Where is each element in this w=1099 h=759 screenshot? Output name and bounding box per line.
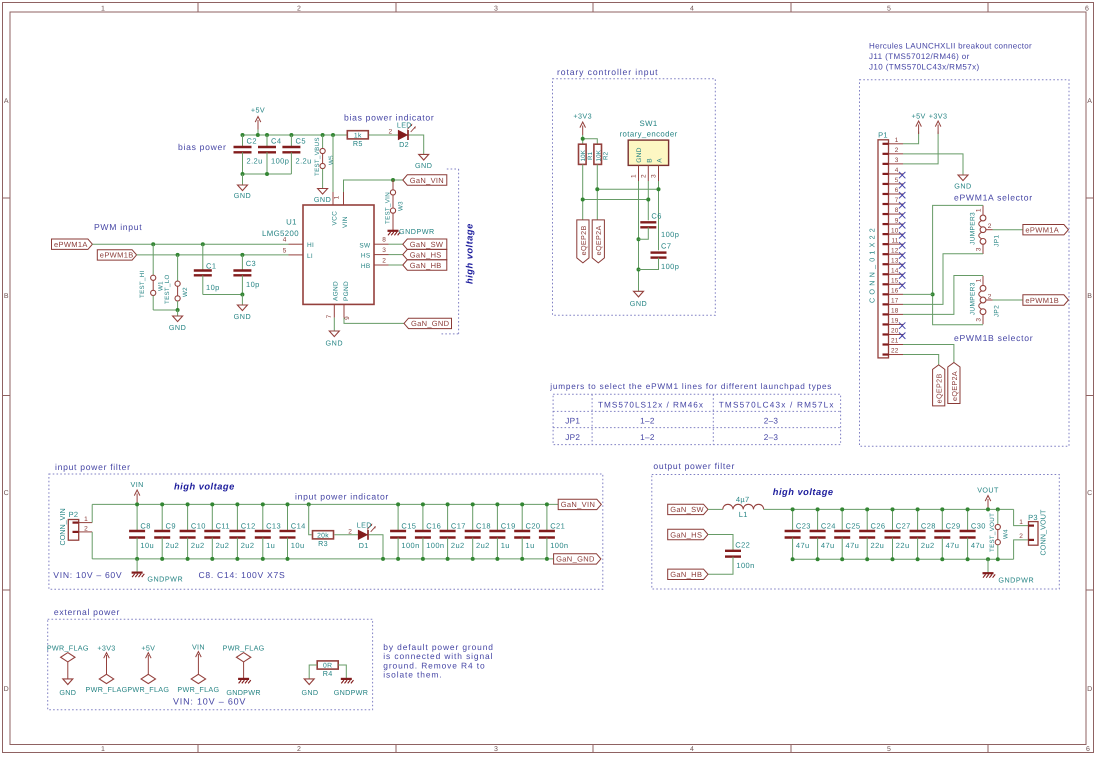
svg-text:4µ7: 4µ7 xyxy=(736,495,750,504)
capacitor C6 xyxy=(640,221,656,223)
junction C27 top xyxy=(891,507,895,511)
power VOUT xyxy=(987,499,989,509)
junction C15 top xyxy=(396,502,400,506)
capacitor C1 xyxy=(202,244,204,270)
SW1 pin 2 xyxy=(647,165,649,181)
wire pin2 to GND xyxy=(903,154,963,175)
svg-text:GaN_GND: GaN_GND xyxy=(411,319,450,328)
capacitor C22 xyxy=(725,550,741,552)
global label GaN_GND input xyxy=(554,554,601,564)
P1 pin 2 xyxy=(883,153,889,155)
svg-text:C1: C1 xyxy=(206,262,216,271)
svg-text:TEST_VIN: TEST_VIN xyxy=(384,192,391,224)
P1 pin 21 xyxy=(883,343,889,345)
U1 pin SW xyxy=(374,243,389,245)
svg-text:ePWM1B: ePWM1B xyxy=(1025,296,1059,305)
svg-text:PWR_FLAG: PWR_FLAG xyxy=(86,685,128,694)
capacitor C21 xyxy=(546,504,548,531)
junction W2 gnd xyxy=(176,308,180,312)
svg-text:4: 4 xyxy=(690,746,694,753)
capacitor C18 xyxy=(472,504,474,531)
svg-text:100n: 100n xyxy=(736,561,754,570)
no-connect pin 13 xyxy=(899,262,905,268)
capacitor C17 xyxy=(447,504,449,531)
global label ePWM1A xyxy=(52,239,93,249)
svg-text:C10: C10 xyxy=(191,522,206,531)
svg-text:PWR_FLAG: PWR_FLAG xyxy=(127,685,169,694)
svg-text:bias power indicator: bias power indicator xyxy=(344,113,434,123)
junction C8 bottom xyxy=(135,557,139,561)
svg-text:external power: external power xyxy=(54,607,120,617)
svg-text:100p: 100p xyxy=(661,262,679,271)
junction R1 xyxy=(581,198,585,202)
junction C13 bottom xyxy=(261,557,265,561)
junction C18 bottom xyxy=(471,557,475,561)
svg-text:GND: GND xyxy=(415,161,432,170)
svg-text:output power filter: output power filter xyxy=(653,461,735,471)
svg-text:C16: C16 xyxy=(426,522,441,531)
svg-text:C26: C26 xyxy=(871,522,886,531)
svg-text:+3V3: +3V3 xyxy=(573,112,592,121)
wire C1 C3 bottom xyxy=(203,294,243,296)
svg-text:JUMPER3: JUMPER3 xyxy=(970,282,977,315)
capacitor C3 xyxy=(241,255,243,271)
wire pin2 down xyxy=(647,181,649,220)
svg-text:+5V: +5V xyxy=(911,111,925,120)
svg-text:2u2: 2u2 xyxy=(451,541,465,550)
junction W3 xyxy=(391,178,395,182)
dashed box input filter xyxy=(49,474,603,589)
svg-text:GaN_HS: GaN_HS xyxy=(410,250,442,259)
capacitor C19 xyxy=(496,504,498,531)
svg-text:+5V: +5V xyxy=(251,106,265,115)
jumper JP2 xyxy=(980,285,986,291)
svg-text:C24: C24 xyxy=(821,522,836,531)
svg-text:W2: W2 xyxy=(182,287,189,297)
junction R3 branch xyxy=(307,502,311,506)
svg-text:GND: GND xyxy=(636,147,643,162)
junction C19 top xyxy=(495,502,499,506)
svg-text:D: D xyxy=(4,686,9,693)
svg-text:PWM input: PWM input xyxy=(94,222,142,232)
junction C17 top xyxy=(446,502,450,506)
svg-text:JP2: JP2 xyxy=(565,433,580,442)
svg-text:1: 1 xyxy=(976,208,983,212)
junction C15 bottom xyxy=(396,557,400,561)
svg-text:47u: 47u xyxy=(821,541,835,550)
svg-text:5: 5 xyxy=(887,6,891,13)
svg-text:100p: 100p xyxy=(661,230,679,239)
svg-text:2u2: 2u2 xyxy=(216,541,230,550)
svg-text:C25: C25 xyxy=(846,522,861,531)
svg-text:22u: 22u xyxy=(896,541,910,550)
svg-text:B: B xyxy=(4,293,9,300)
svg-text:VIN: VIN xyxy=(192,643,205,652)
svg-text:GaN_VIN: GaN_VIN xyxy=(561,500,596,509)
svg-text:HB: HB xyxy=(361,263,371,270)
svg-text:18: 18 xyxy=(891,308,899,315)
svg-text:PWR_FLAG: PWR_FLAG xyxy=(47,644,89,653)
svg-text:rotary controller input: rotary controller input xyxy=(557,67,658,77)
wire JP2 pin2 to ePWM1B xyxy=(993,299,1023,301)
svg-text:7: 7 xyxy=(895,197,899,204)
junction bus W5 xyxy=(321,133,325,137)
SW1 pin 1 xyxy=(638,165,640,181)
wire P2 pin2 to bottom bus xyxy=(91,532,93,559)
wire pin21 to eQEP2A xyxy=(903,345,954,363)
svg-text:high voltage: high voltage xyxy=(773,487,834,497)
svg-text:10p: 10p xyxy=(246,280,260,289)
P1 pin 19 xyxy=(883,323,889,325)
wire bus to P3 pin1 xyxy=(1014,509,1029,525)
gnd bias caps xyxy=(242,174,244,185)
testpoint W2 TEST_LO xyxy=(177,255,179,281)
capacitor C25 xyxy=(841,509,843,531)
svg-text:+3V3: +3V3 xyxy=(929,111,948,120)
power +5V xyxy=(257,120,259,130)
global label ePWM1B xyxy=(97,250,136,260)
U1 pin HI xyxy=(289,243,304,245)
svg-text:2–3: 2–3 xyxy=(764,433,779,442)
svg-text:2: 2 xyxy=(640,174,647,178)
junction bus C2 xyxy=(241,133,245,137)
svg-text:TEST_HI: TEST_HI xyxy=(139,270,146,298)
junction C16 bottom xyxy=(421,557,425,561)
junction C29 top xyxy=(940,507,944,511)
capacitor C29 xyxy=(941,509,943,531)
capacitor C24 xyxy=(817,509,819,531)
wire GaN_SW to L1 xyxy=(708,508,723,510)
P1 pin 7 xyxy=(883,203,889,205)
svg-text:R2: R2 xyxy=(603,151,610,160)
svg-text:CONN_01X22: CONN_01X22 xyxy=(867,225,876,303)
high voltage bracket xyxy=(447,168,459,170)
svg-text:JUMPER3: JUMPER3 xyxy=(970,212,977,245)
svg-text:100n: 100n xyxy=(426,541,444,550)
U1 pin VCC xyxy=(332,192,334,205)
svg-text:2: 2 xyxy=(1019,533,1023,540)
svg-text:1: 1 xyxy=(895,137,899,144)
resistor R2 xyxy=(594,144,602,164)
svg-text:JP2: JP2 xyxy=(994,305,1001,317)
junction C1 xyxy=(201,242,205,246)
junction VOUT xyxy=(986,507,990,511)
junction C11 bottom xyxy=(210,557,214,561)
svg-text:GNDPWR: GNDPWR xyxy=(399,227,435,236)
junction C24 bottom xyxy=(816,557,820,561)
gnd C3 xyxy=(241,295,243,306)
junction C20 bottom xyxy=(520,557,524,561)
wire VCC to bus xyxy=(332,135,334,192)
svg-text:13: 13 xyxy=(891,257,899,264)
svg-text:R5: R5 xyxy=(353,139,363,148)
svg-text:D: D xyxy=(1087,686,1092,693)
P2 pin 2 xyxy=(73,531,79,533)
svg-text:100n: 100n xyxy=(550,541,568,550)
svg-text:ePWM1A: ePWM1A xyxy=(1025,226,1059,235)
connector P2 xyxy=(68,520,78,541)
junction W4 top xyxy=(996,507,1000,511)
junction C6 gnd xyxy=(637,237,641,241)
svg-text:21: 21 xyxy=(891,338,899,345)
svg-text:TMS570LS12x / RM46x: TMS570LS12x / RM46x xyxy=(598,401,704,410)
svg-text:C5: C5 xyxy=(296,137,306,146)
svg-text:C12: C12 xyxy=(241,522,256,531)
U1 pin AGND xyxy=(333,304,335,317)
P1 pin 18 xyxy=(883,313,889,315)
svg-text:2: 2 xyxy=(297,6,301,13)
junction W2 xyxy=(176,253,180,257)
svg-text:C20: C20 xyxy=(526,522,541,531)
svg-text:C4: C4 xyxy=(271,137,281,146)
wire PGND to GaN_GND xyxy=(344,318,404,324)
svg-text:C8: C8 xyxy=(140,522,150,531)
svg-text:GaN_HS: GaN_HS xyxy=(670,530,702,539)
junction C19 bottom xyxy=(495,557,499,561)
svg-text:LED: LED xyxy=(397,120,412,129)
svg-text:eQEP2A: eQEP2A xyxy=(594,225,603,255)
svg-text:high voltage: high voltage xyxy=(174,482,235,492)
wire VIN to GaN_VIN xyxy=(344,180,403,192)
svg-text:C21: C21 xyxy=(550,522,565,531)
svg-text:3: 3 xyxy=(382,247,386,254)
no-connect pin 12 xyxy=(899,252,905,258)
testpoint W1 TEST_HI xyxy=(152,244,154,275)
svg-text:CONN_VOUT: CONN_VOUT xyxy=(1039,509,1048,556)
no-connect pin 5 xyxy=(899,182,905,188)
svg-text:6: 6 xyxy=(895,187,899,194)
wire R5 to LED D2 xyxy=(368,134,398,136)
P1 pin 14 xyxy=(883,273,889,275)
junction C21 bottom xyxy=(545,557,549,561)
junction C28 top xyxy=(916,507,920,511)
svg-text:4: 4 xyxy=(283,237,287,244)
svg-text:GaN_VIN: GaN_VIN xyxy=(410,176,444,185)
svg-text:10K: 10K xyxy=(580,149,587,161)
capacitor C14 xyxy=(287,504,289,531)
capacitor C11 xyxy=(211,504,213,531)
P1 pin 22 xyxy=(883,353,889,355)
svg-text:LI: LI xyxy=(307,253,313,260)
wire pin3 to +3V3 xyxy=(903,132,938,164)
capacitor C4 xyxy=(266,135,268,147)
no-connect pin 15 xyxy=(899,282,905,288)
global label eQEP2A hercules xyxy=(948,363,960,404)
resistor R5 xyxy=(347,131,368,139)
P1 pin 3 xyxy=(883,163,889,165)
wire JP1 pin2 to ePWM1A xyxy=(993,229,1023,231)
svg-text:2: 2 xyxy=(988,223,992,230)
svg-text:eQEP2B: eQEP2B xyxy=(935,373,944,403)
P1 pin 15 xyxy=(883,283,889,285)
svg-text:VCC: VCC xyxy=(332,211,339,226)
dashed box rotary xyxy=(553,79,716,315)
no-connect pin 10 xyxy=(899,232,905,238)
svg-text:PGND: PGND xyxy=(343,281,350,301)
svg-text:GND: GND xyxy=(630,299,647,308)
U1 pin HS xyxy=(374,254,389,256)
testpoint W3 TEST_VIN xyxy=(392,180,394,190)
capacitor C7 xyxy=(651,251,667,253)
svg-text:eQEP2B: eQEP2B xyxy=(579,225,588,255)
junction C21 top xyxy=(545,502,549,506)
svg-text:2.2u: 2.2u xyxy=(247,157,263,166)
gnd W1/W2 xyxy=(177,310,179,316)
no-connect pin 19 xyxy=(899,322,905,328)
svg-text:GaN_HB: GaN_HB xyxy=(410,261,442,270)
capacitor C8 xyxy=(136,504,138,531)
junction R2 xyxy=(595,187,599,191)
P1 pin 6 xyxy=(883,193,889,195)
no-connect pin 4 xyxy=(899,172,905,178)
LED D2 xyxy=(398,130,407,139)
capacitor C9 xyxy=(161,504,163,531)
wire pin18 to JP2 pin1 xyxy=(903,276,983,315)
svg-text:8: 8 xyxy=(382,237,386,244)
svg-text:PWR_FLAG: PWR_FLAG xyxy=(223,644,265,653)
wire input top bus xyxy=(92,503,558,505)
gnd U1 xyxy=(329,331,339,337)
no-connect pin 9 xyxy=(899,222,905,228)
svg-text:jumpers to select the ePWM1 li: jumpers to select the ePWM1 lines for di… xyxy=(549,382,832,391)
svg-text:JP1: JP1 xyxy=(994,235,1001,247)
svg-text:input power filter: input power filter xyxy=(55,462,131,472)
no-connect pin 11 xyxy=(899,242,905,248)
capacitor C27 xyxy=(892,509,894,531)
capacitor C28 xyxy=(917,509,919,531)
gnd rotary xyxy=(634,291,644,297)
svg-text:C2: C2 xyxy=(247,137,257,146)
svg-text:C28: C28 xyxy=(921,522,936,531)
junction C12 top xyxy=(235,502,239,506)
svg-text:C8. C14: 100V X7S: C8. C14: 100V X7S xyxy=(199,570,286,580)
wire R3 branch xyxy=(309,504,312,534)
power +3V3 rotary xyxy=(582,126,584,136)
svg-text:GaN_GND: GaN_GND xyxy=(556,555,595,564)
junction C10 bottom xyxy=(186,557,190,561)
svg-text:2: 2 xyxy=(84,525,88,532)
svg-text:D2: D2 xyxy=(399,140,409,149)
wire +5V to bus xyxy=(257,130,259,136)
junction C9 bottom xyxy=(160,557,164,561)
capacitor C5 xyxy=(290,135,292,147)
capacitor C16 xyxy=(422,504,424,531)
wire AGND to gnd xyxy=(333,318,335,331)
svg-text:GND: GND xyxy=(326,339,343,348)
svg-text:HS: HS xyxy=(361,252,371,259)
svg-text:GaN_SW: GaN_SW xyxy=(670,505,704,514)
U1 pin LI xyxy=(289,254,304,256)
junction C10 top xyxy=(186,502,190,506)
svg-text:1u: 1u xyxy=(266,541,275,550)
wire bias bus xyxy=(243,134,348,136)
svg-text:3: 3 xyxy=(494,6,498,13)
global label GaN_HB xyxy=(668,569,708,579)
svg-text:CONN_VIN: CONN_VIN xyxy=(58,508,67,545)
svg-text:W3: W3 xyxy=(397,201,404,211)
svg-text:1: 1 xyxy=(101,6,105,13)
op-amp U1 LMG5200 xyxy=(303,205,374,304)
svg-text:47u: 47u xyxy=(846,541,860,550)
junction C25 top xyxy=(840,507,844,511)
svg-text:B: B xyxy=(646,158,653,163)
P1 pin 5 xyxy=(883,183,889,185)
P1 pin 9 xyxy=(883,223,889,225)
svg-text:1: 1 xyxy=(631,174,638,178)
junction GNDPWR output xyxy=(986,557,990,561)
svg-text:11: 11 xyxy=(891,237,898,244)
svg-text:4: 4 xyxy=(690,6,694,13)
svg-text:2: 2 xyxy=(988,294,992,301)
wire R3 to D1 xyxy=(334,534,358,536)
svg-text:15: 15 xyxy=(891,277,899,284)
svg-text:GND: GND xyxy=(169,323,186,332)
svg-text:2u2: 2u2 xyxy=(241,541,255,550)
no-connect pin 14 xyxy=(899,272,905,278)
P1 pin 17 xyxy=(883,303,889,305)
svg-text:isolate them.: isolate them. xyxy=(383,670,442,680)
junction W1 xyxy=(151,242,155,246)
svg-text:2.2u: 2.2u xyxy=(296,157,312,166)
global label GaN_VIN xyxy=(403,175,447,185)
svg-text:C15: C15 xyxy=(401,522,416,531)
svg-text:2: 2 xyxy=(348,528,352,535)
svg-text:eQEP2A: eQEP2A xyxy=(950,371,959,401)
svg-text:C18: C18 xyxy=(476,522,491,531)
svg-text:22: 22 xyxy=(891,348,899,355)
capacitor C26 xyxy=(866,509,868,531)
junction C7 gnd xyxy=(637,268,641,272)
svg-text:47u: 47u xyxy=(971,541,985,550)
global label GaN_VIN input xyxy=(558,499,601,509)
svg-text:VOUT: VOUT xyxy=(977,485,999,494)
svg-text:C7: C7 xyxy=(661,242,671,251)
svg-text:47u: 47u xyxy=(946,541,960,550)
svg-text:10p: 10p xyxy=(206,283,220,292)
wire D1 to bottom bus xyxy=(369,535,383,559)
svg-text:A: A xyxy=(657,158,664,163)
svg-text:SW1: SW1 xyxy=(640,119,658,128)
svg-text:9: 9 xyxy=(895,217,899,224)
svg-text:14: 14 xyxy=(891,267,899,274)
jumper JP1 xyxy=(980,215,986,221)
junction bus C5 xyxy=(289,133,293,137)
svg-text:8: 8 xyxy=(895,207,899,214)
svg-text:TEST_VBUS: TEST_VBUS xyxy=(314,137,321,176)
svg-text:19: 19 xyxy=(891,318,899,325)
svg-text:C3: C3 xyxy=(246,259,256,268)
svg-text:rotary_encoder: rotary_encoder xyxy=(620,130,678,139)
wire ePWM1A to HI xyxy=(92,243,288,245)
junction bottom C2 xyxy=(241,172,245,176)
global label eQEP2B rotary xyxy=(577,220,589,263)
wire pin1 gnd xyxy=(638,181,640,291)
gndpwr W3 xyxy=(388,230,399,232)
svg-text:C: C xyxy=(1087,490,1092,497)
svg-text:2–3: 2–3 xyxy=(764,416,779,425)
testpoint W5 TEST_VBUS xyxy=(322,135,324,148)
P1 pin 13 xyxy=(883,263,889,265)
junction C9 top xyxy=(160,502,164,506)
svg-text:7: 7 xyxy=(326,314,333,318)
svg-text:VIN: 10V – 60V: VIN: 10V – 60V xyxy=(53,570,122,580)
junction C12 bottom xyxy=(235,557,239,561)
svg-text:J10 (TMS570LC43x/RM57x): J10 (TMS570LC43x/RM57x) xyxy=(869,63,980,72)
table: jumpers xyxy=(553,394,841,444)
global label GaN_HS xyxy=(668,529,708,539)
svg-text:3: 3 xyxy=(494,746,498,753)
global label GaN_HS xyxy=(403,249,447,259)
